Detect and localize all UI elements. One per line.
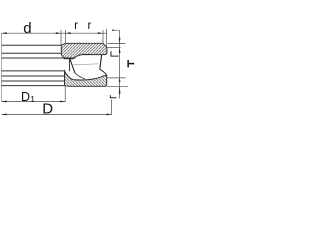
svg-text:r: r bbox=[74, 20, 78, 32]
svg-text:r: r bbox=[88, 20, 92, 32]
svg-text:D: D bbox=[21, 90, 30, 104]
svg-text:1: 1 bbox=[30, 94, 35, 104]
svg-text:D: D bbox=[42, 101, 53, 118]
svg-text:d: d bbox=[23, 20, 31, 37]
